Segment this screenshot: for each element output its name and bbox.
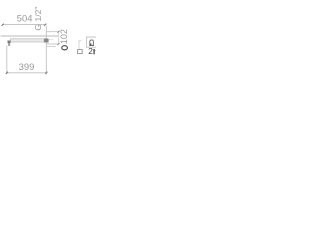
icon glyph base	[89, 44, 94, 46]
housing bottom line	[47, 46, 56, 48]
outlet blob	[8, 41, 11, 46]
spout bar	[10, 39, 46, 42]
tick top 102	[57, 31, 59, 33]
extension line 399 left	[6, 46, 8, 75]
dimension line 102	[58, 32, 60, 44]
extension line 102 bottom	[46, 43, 59, 45]
extension line 102 top	[46, 31, 59, 33]
icon box	[86, 37, 96, 47]
icon glyph fill	[90, 44, 92, 46]
svg-text:2: 2	[88, 46, 93, 56]
dimension line 399	[7, 72, 47, 74]
tick left 399	[6, 72, 8, 74]
clipped glyph	[93, 49, 95, 54]
wall vertical line	[45, 26, 47, 75]
dimension line 504	[2, 24, 46, 26]
svg-text:G 1/2": G 1/2"	[33, 7, 43, 31]
tick right 399	[45, 72, 47, 74]
tick left 504	[2, 24, 4, 26]
svg-text:399: 399	[19, 61, 35, 72]
small square	[78, 50, 83, 54]
tick bottom 102	[57, 43, 59, 45]
wall top line	[1, 35, 58, 37]
icon glyph arch	[90, 40, 94, 45]
tick right 504	[44, 24, 46, 26]
svg-text:102: 102	[59, 29, 69, 44]
wall mount block	[44, 39, 49, 43]
svg-text:504: 504	[17, 12, 33, 23]
faint vertical line	[78, 40, 80, 49]
inner faint line	[49, 39, 54, 41]
oval symbol	[62, 46, 68, 50]
